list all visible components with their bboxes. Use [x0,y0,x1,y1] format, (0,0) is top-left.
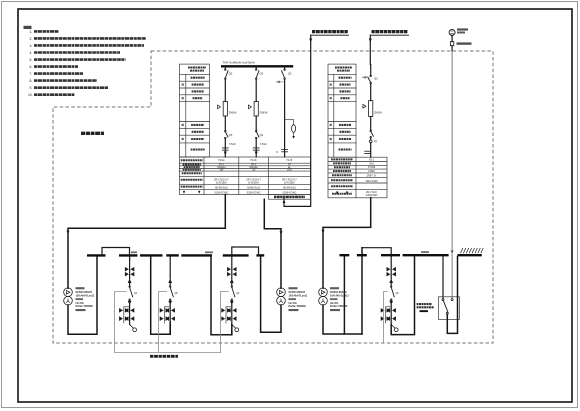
svg-text:Pe/Se=768/960: Pe/Se=768/960 [76,305,94,308]
panel2 incoming disconnect switch [368,65,379,84]
svg-text:H1/4f: H1/4f [287,160,293,162]
svg-text:1.: 1. [30,30,33,34]
panel1 table row labels [181,160,203,186]
svg-text:630A(E): 630A(E) [217,166,226,169]
svg-text:ZR-YJV22-8.7: ZR-YJV22-8.7 [246,180,261,182]
svg-text:8.: 8. [30,79,33,83]
arrowhead on generator feeder [451,250,454,254]
svg-text:AH1: AH1 [369,162,374,165]
busbar2 label [421,251,429,253]
transformer T3 nameplate [330,287,349,311]
svg-text:N: N [276,151,278,154]
mechanical interlock label [150,355,178,358]
wire: generator lead [451,35,453,41]
panel1 incoming disconnect switch [281,66,291,79]
panel2 earthing circle [369,138,377,157]
dashed substation enclosure boundary [53,51,493,343]
svg-text:H2-1: H2-1 [369,160,375,162]
mechanical interlock middle drop [159,292,167,353]
connector box on generator lead [450,42,453,46]
busbar of panel1 [221,65,293,67]
wire: transfer switch output loop [447,256,457,333]
general notes list [28,30,146,97]
reserved generator hatch stub [461,248,484,253]
incoming source label B [370,32,409,36]
wire: panel2 down to T3 [323,198,371,288]
wire: T2 secondary riser [261,257,281,333]
svg-text:H1/4b: H1/4b [251,160,258,162]
svg-text:ZR-YJV22-8.7: ZR-YJV22-8.7 [282,180,297,182]
transfer switch label [417,304,434,312]
svg-text:QS: QS [229,134,233,137]
svg-text:ZR-YJV22-8.7: ZR-YJV22-8.7 [214,180,229,182]
wire: incoming feeder B [369,35,371,64]
arrowhead into T3 [322,230,325,234]
svg-text:3x70/15kV: 3x70/15kV [284,182,295,184]
svg-text:4H: 4H [288,164,291,166]
svg-text:NH-BV-5x10: NH-BV-5x10 [215,188,228,190]
interlock stub at 4QF [384,292,388,343]
generator labels [457,28,472,44]
panel1 feeder1 lower switch [225,130,233,157]
svg-text:6.: 6. [30,65,33,69]
svg-text:10/0.4kV-D,yn11: 10/0.4kV-D,yn11 [76,294,95,297]
svg-text:3x70/15kV: 3x70/15kV [248,182,259,184]
manual transfer switch box [438,297,459,320]
svg-text:3.: 3. [30,44,33,48]
wire: generator lead to boundary [451,46,453,51]
svg-text:630A(E): 630A(E) [249,166,258,169]
wire: panel1 incoming column [284,79,286,157]
mechanical interlock link (left board) [115,292,229,353]
panel2 table data cells [365,160,378,198]
svg-text:4.: 4. [30,51,33,55]
wire: busbar2 to transfer switch [442,256,444,298]
arrowhead into T1 [67,231,70,235]
svg-text:TMY-3x(40x4)+1x(40x4): TMY-3x(40x4)+1x(40x4) [223,61,255,65]
surge arrester branch [285,120,296,139]
svg-text:4H-1: 4H-1 [219,164,225,166]
svg-text:ZR-YJV22: ZR-YJV22 [366,192,377,194]
svg-text:3x70/15kV: 3x70/15kV [216,182,227,184]
svg-text:Pe/Se=768/960: Pe/Se=768/960 [289,305,307,308]
cable exit arrows in panel1 last row [183,191,185,194]
panel2 CT marks [364,151,371,153]
svg-text:9.: 9. [30,86,33,90]
svg-text:1180: 1180 [287,170,293,172]
wire: T3 secondary run [323,305,362,334]
svg-text:Pe/Se=768/960: Pe/Se=768/960 [330,305,348,308]
withdrawable breaker 2QF bus-tie [160,257,178,335]
busbar1 bridge jumper 1 [102,248,130,256]
svg-text:YJV22: YJV22 [229,143,237,146]
svg-text:NH-BV-5x10: NH-BV-5x10 [283,188,296,190]
svg-text:ZN63A: ZN63A [374,112,382,115]
svg-text:YJV22: YJV22 [260,143,268,146]
panel1 table bottom cell [268,195,310,200]
panel1 specification table [180,157,311,195]
svg-text:3x300/15kV: 3x300/15kV [365,195,378,197]
panel1 feeder2 CT and cable arrow [253,143,268,155]
notes heading [24,26,32,29]
svg-text:2.: 2. [30,37,33,41]
transformer T1 [64,288,73,305]
wire: busbar1 U loop 2 [211,257,232,335]
wire: panel1 feeder2 down to T2 [264,199,281,288]
generator source at top right [449,29,455,35]
arrows in panel2 bottom row [336,192,338,195]
withdrawable breaker 1QF bus-section [119,257,137,332]
svg-text:SC80-FC/WC: SC80-FC/WC [282,192,296,194]
wire: breaker 4QF output U loop [391,256,414,334]
wire: generator long feeder [451,51,453,251]
LV busbar 1 segments [87,254,264,256]
svg-text:SC80-FC/WC: SC80-FC/WC [214,192,228,194]
svg-text:15kV-3x300: 15kV-3x300 [365,181,378,183]
svg-text:QS: QS [288,73,292,76]
switchgear panel2 label column [328,64,356,157]
svg-text:ZRB-YJV: ZRB-YJV [367,176,377,178]
svg-text:7.: 7. [30,72,33,76]
supply direction arrow panel2 [362,76,367,79]
supply direction arrow [275,81,280,84]
wire: busbar1 U loop 1 [151,257,171,335]
CT on incoming column [276,150,288,155]
arrowhead into T2 [280,231,283,235]
svg-text:5.: 5. [30,58,33,62]
svg-text:NH-BV-5x10: NH-BV-5x10 [247,188,260,190]
svg-text:QS: QS [374,78,378,81]
incoming source label A [311,32,349,36]
wire: incoming feeder A drop [284,35,311,206]
drawing title label [81,132,104,135]
svg-text:4H-2: 4H-2 [251,164,257,166]
arrowhead up into panel1 [283,199,286,203]
busbar1 labels [131,251,137,253]
LV busbar 2 segments [340,254,482,256]
wire: busbar2 riser [361,248,363,334]
panel1 feeder2 lower switch [255,130,263,157]
svg-text:H1/4a: H1/4a [218,160,225,162]
switchgear panel1 label column [180,64,210,157]
transformer T3 [319,288,328,305]
wire: busbar2 left leg [343,256,345,334]
panel2 circuit breaker [363,84,382,130]
panel1 feeder2 disconnect switch [255,66,263,79]
panel2 specification table [328,157,387,198]
panel2 lower switch [370,130,374,138]
wire: panel1 feeder1 down to T1 [68,195,225,289]
arrowhead on feeder A [309,39,312,43]
arrowhead on feeder B [369,39,372,43]
panel1 feeder1 CT and cable arrow [222,143,237,155]
panel1 feeder1 vacuum breaker [218,79,237,130]
svg-text:10/0.4kV-D,yn11: 10/0.4kV-D,yn11 [330,294,349,297]
svg-text:ZN63A: ZN63A [229,112,237,115]
svg-text:10/0.4kV-D,yn11: 10/0.4kV-D,yn11 [289,294,308,297]
svg-text:KYN28: KYN28 [368,167,376,169]
svg-text:1250A: 1250A [368,170,375,173]
transformer T2 nameplate [289,287,308,311]
svg-text:10.: 10. [28,93,33,97]
svg-text:QS: QS [229,73,233,76]
panel1 feeder1 disconnect switch [225,66,233,79]
svg-text:QS: QS [260,134,264,137]
panel1 feeder2 vacuum breaker [248,79,267,130]
wire: T1 secondary riser [68,257,97,335]
withdrawable breaker 3QF bus-tie [222,257,240,335]
busbar1 bridge jumper 2 [232,247,259,255]
svg-text:SC80-FC/WC: SC80-FC/WC [247,192,261,194]
withdrawable breaker 4QF busbar2 [381,257,399,332]
svg-text:QS: QS [260,73,264,76]
panel1 table data cells [214,160,297,194]
transformer T2 [277,288,286,305]
svg-text:ZN63A: ZN63A [260,112,268,115]
transformer T1 nameplate [76,287,95,311]
wire: busbar2 bridge jumper [362,248,391,257]
wire: generator feeder into transfer box [451,254,453,299]
panel2 table row labels [331,159,353,193]
svg-text:FR: FR [374,141,377,144]
